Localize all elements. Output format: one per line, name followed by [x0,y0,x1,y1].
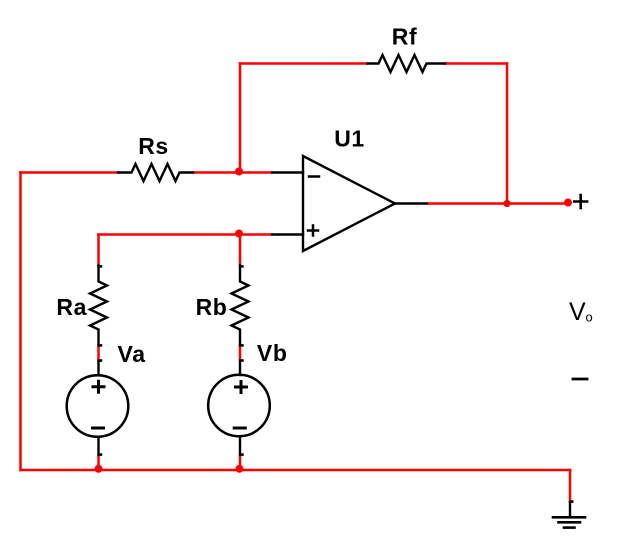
svg-text:Rb: Rb [196,294,228,320]
svg-text:o: o [586,310,593,325]
svg-text:Rf: Rf [392,23,417,49]
svg-text:V: V [569,298,586,326]
svg-text:Va: Va [118,341,146,367]
svg-text:Ra: Ra [56,294,87,320]
svg-text:Vb: Vb [257,340,288,366]
svg-text:Rs: Rs [138,133,169,159]
svg-text:U1: U1 [334,126,365,152]
